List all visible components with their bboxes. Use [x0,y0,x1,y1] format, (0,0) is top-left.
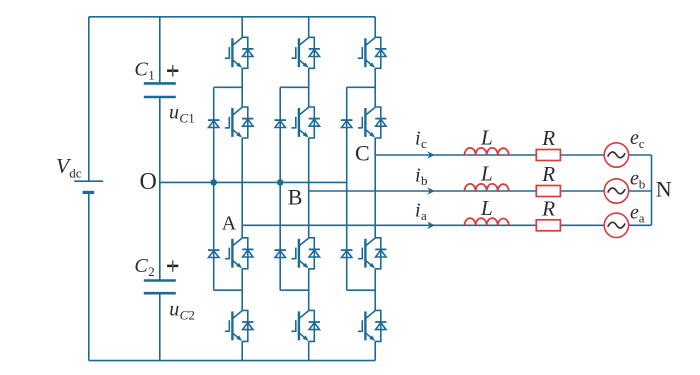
wire: capacitor branch middle [159,97,161,281]
svg-text:u: u [169,299,179,321]
wire: left rail upper (Vdc +) [88,17,90,181]
svg-text:i: i [415,128,421,150]
resistor R phase a [536,220,560,231]
transistor Q3b [291,238,320,269]
AC source ea [604,213,628,237]
svg-text:2: 2 [148,264,155,279]
arrow current ib [427,187,435,195]
svg-text:C: C [134,255,148,277]
capacitor C2 [144,281,176,294]
capacitor C1 [144,83,176,97]
transistor Q2c [358,107,387,138]
clamp diodes leg A [208,87,242,290]
svg-text:dc: dc [69,166,82,181]
inductor L phase c [465,148,509,155]
wire: N vertical [651,155,653,225]
clamp diodes leg C [341,87,375,290]
inductor L phase a [465,218,509,225]
svg-text:e: e [630,127,639,149]
transistor Q1c (leg C top) [358,37,387,68]
svg-text:L: L [480,196,493,220]
wire: bottom DC bus [89,360,375,362]
arrow current ic [427,151,435,159]
wire: phase B output [309,190,605,192]
svg-text:u: u [169,102,179,124]
AC source ec [604,143,628,167]
svg-text:L: L [480,162,493,186]
svg-text:R: R [541,126,555,150]
transistor Q1b (leg B top) [291,37,320,68]
battery Vdc plates [74,180,103,182]
svg-text:R: R [541,197,555,221]
svg-text:C: C [134,59,148,81]
wire: leg B rail segments [308,17,310,361]
wire: left rail lower (Vdc -) [88,192,90,360]
wire: source B to N [629,190,652,192]
wire: source A to N [629,224,652,226]
label + (C2) [167,260,178,271]
svg-text:R: R [541,162,555,186]
svg-text:2: 2 [188,308,195,323]
resistor R phase b [536,186,560,197]
svg-text:i: i [415,165,421,187]
svg-text:i: i [415,200,421,222]
inductor L phase b [465,184,509,191]
arrow current ia [427,222,435,230]
svg-text:c: c [421,136,427,151]
wire: source C to N [629,154,652,156]
svg-text:O: O [140,169,157,195]
transistor Q1a (leg A top) [225,37,254,68]
svg-text:b: b [421,173,428,188]
svg-text:a: a [421,208,427,223]
wire: leg C rail segments [374,17,376,361]
wire: capacitor branch top [159,17,161,84]
wire: capacitor branch bottom [159,293,161,360]
svg-text:L: L [480,126,493,150]
wire: phase A output [242,224,604,226]
wire: leg A rail segments [241,17,243,361]
svg-text:b: b [639,177,646,192]
node dot clamp B / O bus [277,179,284,186]
AC source eb [604,179,628,203]
svg-text:a: a [639,211,645,226]
svg-text:c: c [639,136,645,151]
resistor R phase c [536,150,560,161]
node dot clamp A / O bus [210,179,217,186]
clamp diodes leg B [274,87,308,290]
transistor Q2b [291,107,320,138]
transistor Q4b [291,310,320,341]
transistor Q4c [358,310,387,341]
svg-text:C: C [355,141,370,166]
svg-text:e: e [630,168,639,190]
svg-text:N: N [656,177,672,202]
svg-text:e: e [630,202,639,224]
transistor Q4a [225,310,254,341]
svg-text:B: B [288,185,303,210]
wire: O bus [160,181,346,183]
label + (C1) [167,65,178,76]
svg-text:A: A [222,213,237,235]
transistor Q3c [358,238,387,269]
wire: phase C output [375,154,604,156]
transistor Q3a [225,238,254,269]
svg-text:1: 1 [148,68,155,83]
svg-text:1: 1 [188,111,195,126]
svg-text:C: C [179,111,188,126]
svg-text:C: C [180,308,189,323]
transistor Q2a [225,107,254,138]
wire: top DC bus [89,16,375,18]
